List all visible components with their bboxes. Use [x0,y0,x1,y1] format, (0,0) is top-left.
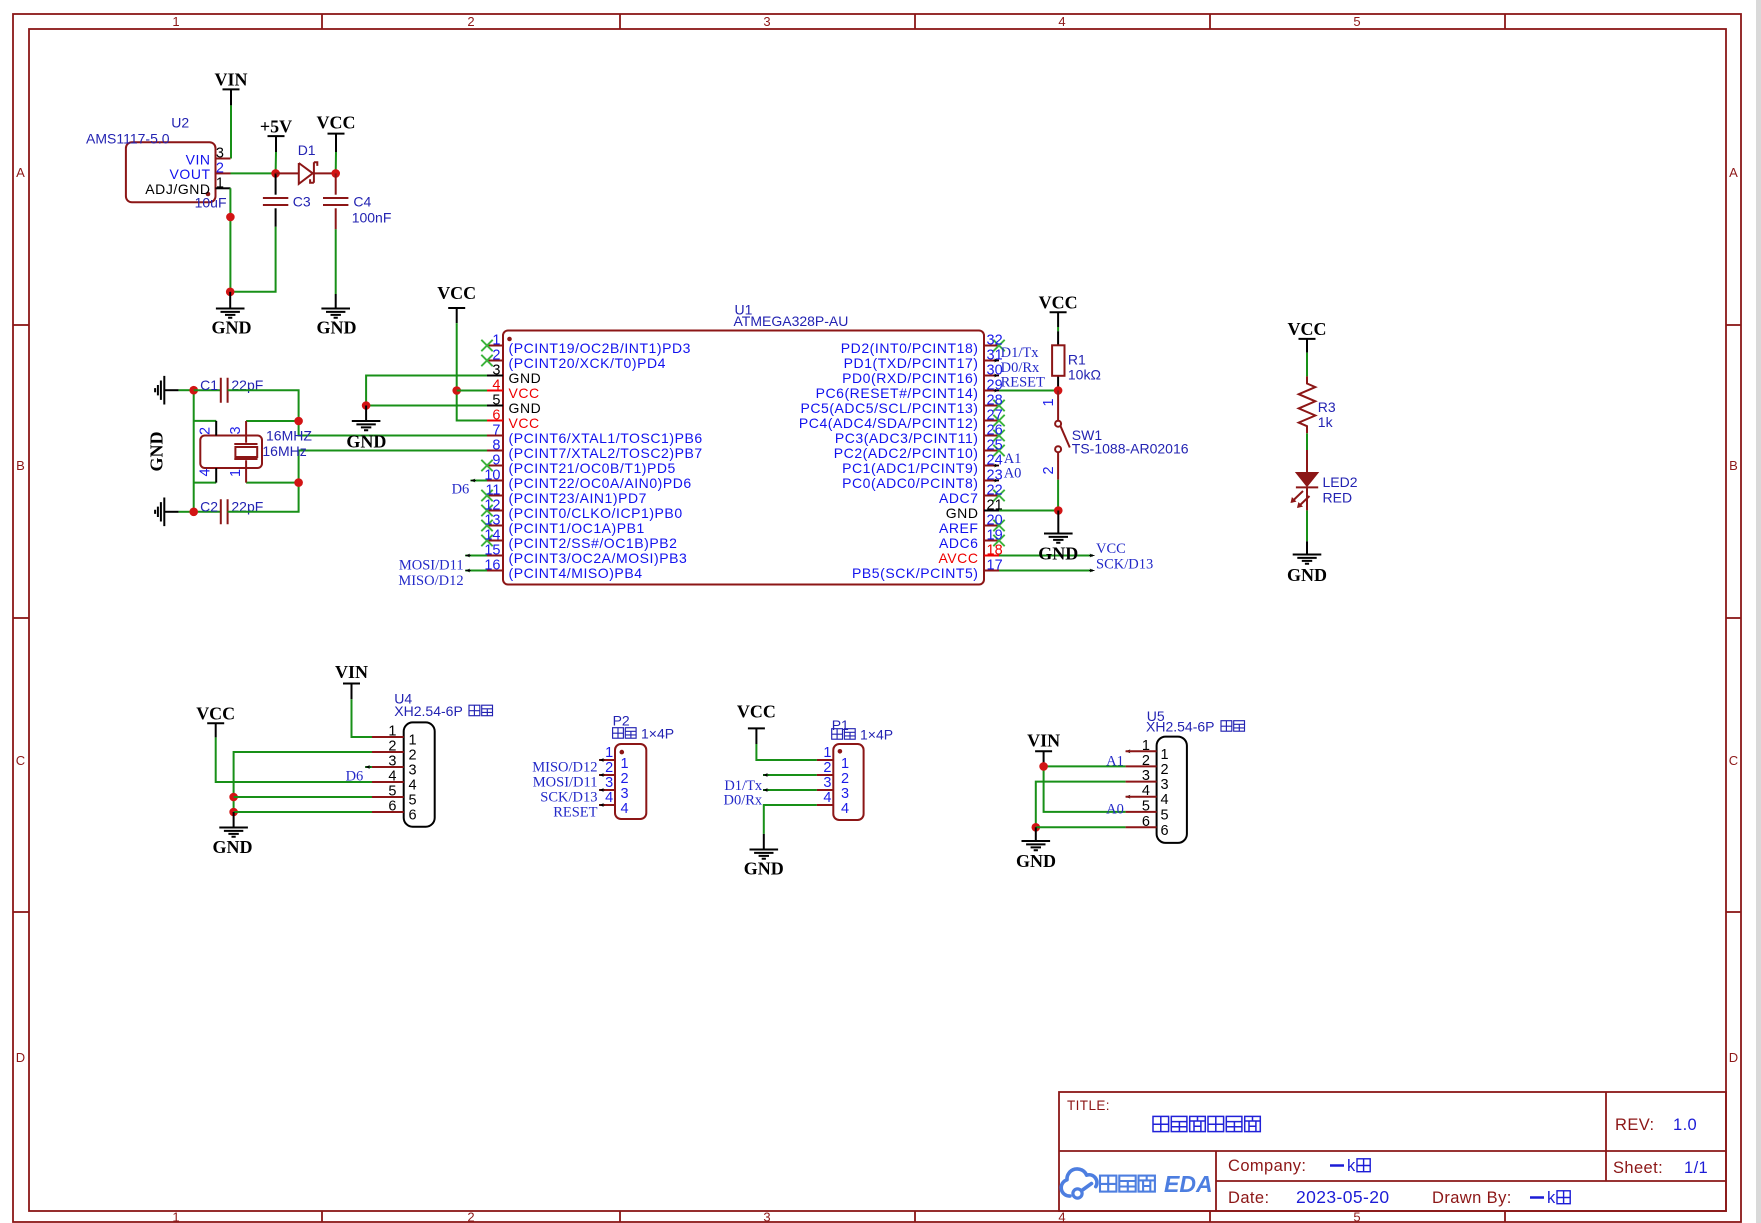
svg-text:22: 22 [987,483,1003,499]
svg-text:4: 4 [409,778,417,794]
wire U4 pin3 D6 stub [365,765,372,769]
junction VIN / U5 pin2 [1039,762,1048,771]
svg-text:3: 3 [492,363,500,379]
svg-text:D1: D1 [298,142,316,158]
U1 pin 29 PC6(RESET#/PCINT14) [816,378,1003,401]
power flag VCC (U1 pins 4/6) [437,283,476,323]
svg-text:19: 19 [987,528,1003,544]
svg-text:(PCINT0/CLKO/ICP1)PB0: (PCINT0/CLKO/ICP1)PB0 [509,505,683,521]
svg-text:D6: D6 [452,482,470,498]
svg-text:100nF: 100nF [352,210,392,226]
svg-text:Date:: Date: [1228,1189,1269,1207]
wire U1 pin15 MOSI stub [465,554,487,558]
wire U1 pin16 MISO stub [465,569,487,573]
capacitor C4 100nF [323,173,391,229]
svg-text:2: 2 [216,160,224,176]
U1 pin 32 PD2(INT0/PCINT18) [841,333,1005,356]
svg-text:20: 20 [987,513,1003,529]
svg-text:R1: R1 [1068,352,1086,368]
svg-text:6: 6 [388,799,396,815]
svg-text:PC0(ADC0/PCINT8): PC0(ADC0/PCINT8) [842,475,978,491]
junction U2 ADJ vertical [226,213,235,222]
svg-text:+5V: +5V [260,117,292,137]
junction D1 cathode / VCC / C4 [331,169,340,178]
svg-text:5: 5 [409,793,417,809]
U1 pin 4 VCC [487,378,540,401]
wire VCC rail to U1 pins 4 and 6 [457,323,487,420]
wire ground rail C1-C2 vertical [193,390,195,512]
U1 pin 6 VCC [487,408,540,431]
svg-text:MISO/D12: MISO/D12 [532,760,597,776]
wire SW1 to GND junction [1057,480,1059,511]
wire U1 pin29 RESET to R1/SW1 [999,390,1058,392]
resistor R3 1k [1299,376,1336,433]
svg-text:A: A [16,165,25,180]
power flag VIN (U2 input) [214,70,247,106]
svg-text:4: 4 [605,790,613,806]
wire VIN to U4 pin1 [352,699,373,737]
ground flag (left of C2, rotated) [155,498,179,527]
svg-text:PB5(SCK/PCINT5): PB5(SCK/PCINT5) [852,565,979,581]
svg-text:4: 4 [1142,783,1150,799]
U1 pin 8 (PCINT7/XTAL2/TOSC2)PB7 [487,438,703,461]
svg-text:3: 3 [823,775,831,791]
wire XTAL1 to U1 pin7 [299,421,487,436]
power flag +5V [260,117,292,153]
svg-text:3: 3 [763,1210,770,1223]
svg-text:k: k [1347,1157,1356,1175]
svg-text:4: 4 [492,378,500,394]
svg-text:3: 3 [1161,777,1169,793]
svg-text:VCC: VCC [196,704,235,724]
svg-text:24: 24 [987,453,1003,469]
U1 pin 14 (PCINT2/SS#/OC1B)PB2 [481,528,677,551]
svg-text:1.0: 1.0 [1673,1116,1697,1134]
junction C2-ground rail [189,508,198,517]
svg-text:1: 1 [388,724,396,740]
svg-text:C1: C1 [200,377,218,393]
svg-text:VCC: VCC [1288,319,1327,339]
junction crystal pin3 / C1 / XTAL1 [294,417,303,426]
wire XTAL2 to U1 pin8 [299,451,487,483]
wire U1 pin3 GND net [366,376,487,406]
svg-text:PC1(ADC1/PCINT9): PC1(ADC1/PCINT9) [842,460,978,476]
svg-text:1: 1 [216,175,224,191]
svg-text:RESET: RESET [553,805,597,821]
svg-text:GND: GND [317,318,357,338]
net stub arrow U5 pin1 [1126,749,1131,753]
svg-text:28: 28 [987,393,1003,409]
svg-text:1: 1 [841,756,849,772]
svg-text:4: 4 [1058,14,1065,29]
svg-text:3: 3 [228,426,244,434]
svg-text:TS-1088-AR02016: TS-1088-AR02016 [1072,440,1189,456]
wire C2 to crystal pin1 node [228,483,299,512]
svg-text:P1: P1 [832,717,849,733]
svg-text:16MHZ: 16MHZ [266,428,312,444]
svg-text:PC3(ADC3/PCINT11): PC3(ADC3/PCINT11) [835,430,979,446]
net label D1/Tx (U1 pin31) [994,345,1040,362]
U1 pin 7 (PCINT6/XTAL1/TOSC1)PB6 [487,423,703,446]
ground flag (left of C1, rotated) [155,376,179,405]
svg-text:VCC: VCC [1039,293,1078,313]
U1 pin 1 (PCINT19/OC2B/INT1)PD3 [481,333,691,356]
ground flag GND (below C4) [317,294,357,338]
svg-text:(PCINT20/XCK/T0)PD4: (PCINT20/XCK/T0)PD4 [509,355,666,371]
wire R3 to LED2 [1306,433,1308,450]
U1 pin 12 (PCINT0/CLKO/ICP1)PB0 [481,498,682,521]
U1 pin 16 (PCINT4/MISO)PB4 [484,558,642,581]
svg-text:1: 1 [1142,738,1150,754]
wire U5 pin2 VIN [1044,765,1126,767]
wire U1 pin5 GND net [366,405,487,407]
U1 pin 21 GND [946,498,1003,521]
svg-text:1: 1 [172,14,179,29]
U1 pin 20 AREF [939,513,1005,536]
junction RESET/R1/SW1 [1054,386,1063,395]
svg-text:A1: A1 [1106,753,1124,769]
svg-text:MISO/D12: MISO/D12 [398,573,463,589]
svg-text:Drawn By:: Drawn By: [1432,1189,1512,1207]
svg-text:VCC: VCC [1096,541,1126,557]
svg-text:2: 2 [467,1210,474,1223]
svg-text:9: 9 [492,453,500,469]
junction ADJ-GND / C3 ground [226,288,235,297]
svg-text:23: 23 [987,468,1003,484]
svg-text:PC2(ADC2/PCINT10): PC2(ADC2/PCINT10) [834,445,979,461]
ground flag GND (below LED2) [1287,541,1327,585]
svg-text:GND: GND [744,859,784,879]
svg-text:3: 3 [763,14,770,29]
svg-text:3: 3 [605,775,613,791]
svg-text:3: 3 [621,786,629,802]
LED LED2 RED [1291,450,1358,510]
power flag VCC (left of U4) [196,704,235,738]
U1 pin 18 AVCC [938,543,1002,566]
ground flag GND (below U2) [212,292,252,338]
svg-text:16MHz: 16MHz [262,443,306,459]
svg-text:D0/Rx: D0/Rx [724,792,763,808]
svg-text:2023-05-20: 2023-05-20 [1296,1187,1390,1207]
svg-text:XH2.54-6P: XH2.54-6P [394,703,462,719]
resistor R1 10k [1052,331,1101,390]
svg-text:1: 1 [1161,747,1169,763]
wire U1 pin21 GND [999,510,1058,512]
svg-text:2: 2 [841,771,849,787]
voltage regulator U2 AMS1117-5.0 [86,115,231,203]
svg-text:AMS1117-5.0: AMS1117-5.0 [86,131,170,147]
svg-text:Sheet:: Sheet: [1613,1159,1663,1177]
net stub arrows P2 [599,758,605,807]
U1 pin 31 PD1(TXD/PCINT17) [844,348,1003,371]
wire U5 pin6 [1036,826,1126,828]
svg-text:VOUT: VOUT [170,166,211,182]
junction VCC rail pin4 [452,386,461,395]
power flag VIN (above U4) [335,662,368,699]
ground flag GND (below SW1) [1038,511,1078,564]
svg-text:GND: GND [1287,565,1327,585]
wire C3 to GND [230,227,275,292]
svg-text:14: 14 [484,528,500,544]
svg-text:D: D [1729,1050,1738,1065]
crystal X1 16MHZ [197,421,312,483]
svg-text:VCC: VCC [437,283,476,303]
svg-text:1×4P: 1×4P [860,727,893,743]
junction pin21/SW1/GND [1054,506,1063,515]
U1 pin 24 PC1(ADC1/PCINT9) [842,453,1003,476]
svg-text:2: 2 [1161,762,1169,778]
svg-text:GND: GND [509,400,542,416]
svg-text:2: 2 [492,348,500,364]
svg-text:P2: P2 [613,713,630,729]
svg-text:27: 27 [987,408,1003,424]
svg-text:5: 5 [492,393,500,409]
switch SW1 TS-1088-AR02016 [1041,391,1189,480]
junction U4 pin5 branch [229,793,238,802]
svg-text:PC6(RESET#/PCINT14): PC6(RESET#/PCINT14) [816,385,979,401]
net label A0 (U1 pin23) [994,466,1022,483]
svg-text:GND: GND [509,370,542,386]
svg-text:5: 5 [388,784,396,800]
U1 pin 13 (PCINT1/OC1A)PB1 [481,513,645,536]
svg-text:B: B [16,458,25,473]
svg-text:4: 4 [841,801,849,817]
wire crystal pin3 to junction [246,420,299,422]
svg-text:3: 3 [216,146,224,162]
svg-text:2: 2 [1041,466,1057,474]
svg-text:ADC7: ADC7 [939,490,979,506]
U1 pin 17 PB5(SCK/PCINT5) [852,558,1003,581]
svg-text:2: 2 [621,771,629,787]
svg-text:4: 4 [823,790,831,806]
U1 pin 2 (PCINT20/XCK/T0)PD4 [481,348,666,371]
svg-text:VIN: VIN [186,151,211,167]
svg-text:VIN: VIN [214,70,247,90]
U1 pin 10 (PCINT22/OC0A/AIN0)PD6 [484,468,691,491]
wire LED2 to GND [1306,510,1308,541]
svg-text:GND: GND [212,318,252,338]
svg-text:PD1(TXD/PCINT17): PD1(TXD/PCINT17) [844,355,979,371]
svg-text:A1: A1 [1004,451,1022,467]
svg-text:VCC: VCC [317,113,356,133]
svg-text:1: 1 [823,745,831,761]
svg-text:EDA: EDA [1164,1171,1213,1197]
svg-text:B: B [1729,458,1738,473]
junction U5 pin6 / GND [1032,823,1041,832]
wire VCC to U4 pin4 [216,737,372,782]
svg-text:C: C [1729,753,1738,768]
wire crystal pin4 connection [194,482,217,484]
svg-text:(PCINT21/OC0B/T1)PD5: (PCINT21/OC0B/T1)PD5 [509,460,676,476]
U1 pin 19 ADC6 [939,528,1005,551]
U1 pin 9 (PCINT21/OC0B/T1)PD5 [481,453,676,476]
svg-text:5: 5 [1353,14,1360,29]
capacitor C3 [263,173,311,226]
net label A1 (U1 pin24) [994,451,1022,468]
power flag VCC (above P1) [737,702,776,745]
svg-text:4: 4 [388,769,396,785]
wire C1 to crystal pin3 node [228,390,299,421]
U1 pin 15 (PCINT3/OC2A/MOSI)PB3 [484,543,687,566]
svg-text:VCC: VCC [737,702,776,722]
junction U4 pin6 / ground [229,808,238,817]
svg-text:D6: D6 [346,769,364,785]
svg-text:1: 1 [605,745,613,761]
U1 pin 5 GND [487,393,541,416]
svg-text:10uF: 10uF [195,195,227,211]
U1 pin 25 PC2(ADC2/PCINT10) [834,438,1005,461]
capacitor C2 22pF [194,499,264,525]
svg-text:4: 4 [197,468,213,476]
svg-text:GND: GND [1016,851,1056,871]
svg-text:6: 6 [409,808,417,824]
U1 pin 22 ADC7 [939,483,1005,506]
wire U4 pin6 [234,811,372,813]
wire +5V to junction [275,152,277,173]
U1 pin 28 PC5(ADC5/SCL/PCINT13) [800,393,1004,416]
svg-text:MOSI/D11: MOSI/D11 [399,557,464,573]
wire U2 ADJ/GND down to ground [229,188,231,291]
power flag VCC (above R1) [1039,293,1078,327]
svg-text:11: 11 [485,483,500,499]
connector P2 1x4 header [599,713,674,820]
svg-text:1: 1 [409,733,417,749]
svg-text:D: D [16,1050,25,1065]
svg-text:D0/Rx: D0/Rx [1001,360,1040,376]
wire U4 pin5 [234,796,372,798]
svg-text:2: 2 [388,739,396,755]
svg-text:k: k [1547,1189,1556,1207]
svg-text:GND: GND [946,505,979,521]
svg-text:2: 2 [467,14,474,29]
svg-text:(PCINT19/OC2B/INT1)PD3: (PCINT19/OC2B/INT1)PD3 [509,340,691,356]
wire U1 pin10 D6 stub [471,479,488,483]
wire C4 to GND [335,229,337,294]
wire P1 pin4 to GND [764,805,817,834]
svg-text:3: 3 [841,786,849,802]
svg-text:2: 2 [605,760,613,776]
svg-text:1: 1 [492,333,500,349]
svg-text:4: 4 [1161,792,1169,808]
connector U4 XH2.54-6P [372,691,493,827]
svg-text:1×4P: 1×4P [641,726,674,742]
svg-text:10kΩ: 10kΩ [1068,367,1101,383]
wire VIN rail to U5 pin5 [1044,766,1126,812]
U1 pin 23 PC0(ADC0/PCINT8) [842,468,1003,491]
wire crystal pin2 connection [194,420,217,422]
svg-text:13: 13 [484,513,500,529]
svg-text:SCK/D13: SCK/D13 [1096,557,1153,573]
svg-text:1k: 1k [1318,414,1334,430]
svg-text:VCC: VCC [509,415,540,431]
svg-text:REV:: REV: [1615,1116,1655,1134]
svg-text:U2: U2 [171,115,189,131]
svg-text:XH2.54-6P: XH2.54-6P [1146,719,1214,735]
svg-text:TITLE:: TITLE: [1067,1098,1110,1113]
svg-text:ATMEGA328P-AU: ATMEGA328P-AU [734,313,849,329]
svg-text:8: 8 [492,438,500,454]
svg-text:(PCINT23/AIN1)PD7: (PCINT23/AIN1)PD7 [509,490,648,506]
svg-text:2: 2 [823,760,831,776]
svg-text:C3: C3 [293,194,311,210]
wire VIN to U2 pin 3 [230,105,232,158]
wire VCC to U1 pin4 [457,390,487,392]
svg-text:2: 2 [409,748,417,764]
svg-text:5: 5 [1142,798,1150,814]
wire C2 ground stub [179,511,194,513]
svg-text:26: 26 [987,423,1003,439]
svg-text:4: 4 [621,801,629,817]
svg-text:VIN: VIN [335,662,368,682]
svg-text:(PCINT3/OC2A/MOSI)PB3: (PCINT3/OC2A/MOSI)PB3 [509,550,688,566]
svg-text:PC4(ADC4/SDA/PCINT12): PC4(ADC4/SDA/PCINT12) [799,415,979,431]
junction C1-ground rail [189,386,198,395]
svg-text:1: 1 [621,756,629,772]
svg-text:(PCINT6/XTAL1/TOSC1)PB6: (PCINT6/XTAL1/TOSC1)PB6 [509,430,703,446]
svg-text:C4: C4 [353,194,371,210]
svg-text:A: A [1729,165,1738,180]
wire crystal pin1 to junction [246,482,299,484]
svg-text:PD0(RXD/PCINT16): PD0(RXD/PCINT16) [842,370,978,386]
svg-text:PD2(INT0/PCINT18): PD2(INT0/PCINT18) [841,340,979,356]
svg-text:RESET: RESET [1001,375,1045,391]
svg-text:(PCINT22/OC0A/AIN0)PD6: (PCINT22/OC0A/AIN0)PD6 [509,475,692,491]
wire VCC to R3 [1306,353,1308,377]
svg-text:1/1: 1/1 [1684,1159,1708,1177]
net label D0/Rx (U1 pin30) [994,360,1041,378]
wire U4 pin2 ground branch [234,752,372,812]
wire C1 ground stub [179,389,194,391]
svg-text:A0: A0 [1004,466,1022,482]
svg-text:R3: R3 [1318,399,1336,415]
svg-text:VCC: VCC [509,385,540,401]
ground flag GND (below U5) [1016,827,1056,871]
svg-text:12: 12 [484,498,500,514]
svg-text:7: 7 [492,423,500,439]
svg-text:5: 5 [1161,807,1169,823]
junction VOUT/+5V/C3/D1 [271,169,280,178]
svg-text:2: 2 [1142,753,1150,769]
svg-text:C: C [16,753,25,768]
connector U5 XH2.54-6P [1126,708,1245,843]
svg-text:MOSI/D11: MOSI/D11 [533,775,598,791]
power flag VCC (top-left) [317,113,356,153]
net label RESET (U1 pin29) [994,375,1046,393]
ground flag GND (below U4) [213,812,253,857]
svg-text:ADC6: ADC6 [939,535,979,551]
svg-text:3: 3 [1142,768,1150,784]
junction crystal pin1 / C2 / XTAL2 [294,478,303,487]
wire U2 VOUT to +5V junction [231,172,276,174]
wire U5 pin3 to pin6/GND rail [1036,782,1126,828]
svg-text:GND: GND [213,837,253,857]
svg-text:1: 1 [1041,398,1057,406]
wire P1 pin2 D1/Tx stub [763,773,817,777]
diode D1 (schottky) [276,142,336,184]
svg-text:(PCINT2/SS#/OC1B)PB2: (PCINT2/SS#/OC1B)PB2 [509,535,678,551]
connector P1 1x4 header [817,717,893,820]
svg-text:(PCINT1/OC1A)PB1: (PCINT1/OC1A)PB1 [509,520,645,536]
power flag VCC (above R3) [1288,319,1327,353]
svg-text:VIN: VIN [1027,731,1060,751]
junction GND net pin5 [362,401,371,410]
svg-text:1: 1 [172,1210,179,1223]
power flag VIN (above U5) [1027,731,1060,767]
svg-text:GND: GND [346,431,386,451]
U1 pin 26 PC3(ADC3/PCINT11) [835,423,1005,446]
net stub arrow U5 pin4 [1126,795,1131,799]
svg-text:2: 2 [198,427,214,435]
